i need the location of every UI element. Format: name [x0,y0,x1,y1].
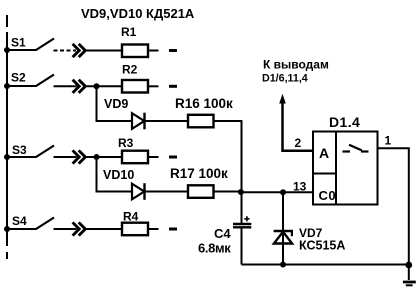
capacitor C4 6.8мк [198,192,251,264]
wire pin 2 [283,101,314,151]
svg-text:13: 13 [293,180,307,194]
connector plug-socket row S1 [73,44,86,57]
svg-text:К выводам: К выводам [263,58,329,72]
wire R16 out to drop [214,121,242,192]
svg-text:R4: R4 [123,210,139,224]
connector plug-socket row S3 [73,150,86,163]
switch S4 [7,214,54,229]
wire connector to R1 [86,50,122,52]
wire R4 out [148,228,159,230]
svg-text:S1: S1 [11,36,26,50]
wire R1 out [148,50,159,52]
IC D1.4 body [313,114,378,205]
wire pin 1 [378,148,409,264]
svg-text:КС515А: КС515А [299,239,345,253]
connector plug-socket row S2 [73,80,86,93]
node VD9 tap junction [94,83,100,89]
node bottom right junction [405,262,412,269]
svg-text:R3: R3 [118,136,134,150]
wire continuation dash R2 [169,85,177,88]
resistor R2 [122,63,148,93]
wire continuation dash R4 [169,228,177,231]
connector plug-socket row S4 [73,222,86,235]
node VD10 tap junction [94,154,100,160]
node S2 bus junction [4,83,10,89]
wire VD10 drop [97,157,133,192]
svg-text:D1.4: D1.4 [329,114,360,130]
wire VD10 to R17 [145,191,189,193]
wire connector to R2 [86,85,122,87]
node R16/R17/C4 junction [238,189,244,195]
svg-text:C4: C4 [214,226,231,241]
svg-text:A: A [319,145,329,161]
resistor R17 100к [170,166,228,198]
wire R2 out [148,85,159,87]
wire bottom rail [242,264,409,266]
resistor R4 [122,210,148,236]
svg-text:VD9: VD9 [104,97,128,111]
svg-text:1: 1 [385,134,392,148]
svg-text:R2: R2 [122,63,138,77]
diode VD9 [104,97,145,129]
node S3 bus junction [4,154,10,160]
wire continuation dash R1 [169,49,177,52]
diode VD10 [103,168,145,200]
resistor R16 100к [175,96,233,127]
wire connector to R3 [86,156,122,158]
svg-text:S4: S4 [12,214,27,228]
switch S1 [7,36,54,51]
wire left bus (dashed continuation bottom) [6,252,8,259]
node S4 bus junction [4,226,10,232]
node VD7 tap [280,189,286,195]
ground symbol [403,265,416,285]
resistor R1 [121,25,148,57]
switch S2 [7,71,54,87]
svg-text:VD9,VD10 КД521А: VD9,VD10 КД521А [81,6,195,21]
analog switch symbol inside D1.4 [343,145,369,152]
node S1 bus junction [4,47,10,53]
svg-text:R17 100к: R17 100к [170,166,228,181]
svg-text:D1/6,11,4: D1/6,11,4 [262,73,308,85]
arrow to D1/6,11,4 [279,94,286,104]
svg-text:S3: S3 [12,143,27,157]
wire left bus main [6,32,8,246]
wire VD9 drop [97,86,133,121]
wire R17 out [214,191,241,193]
wire left bus (dashed continuation top) [6,15,8,27]
resistor R3 [118,136,148,163]
wire blade to connector S3 [54,156,77,158]
wire blade to connector S2 [54,85,77,87]
svg-text:2: 2 [295,136,302,150]
svg-text:6.8мк: 6.8мк [198,241,231,256]
wire connector to R4 [86,228,122,230]
svg-text:C0: C0 [319,188,337,203]
wire node to pin 13 [241,191,313,193]
wire continuation dash R3 [169,156,177,159]
wire dashed shaft S1 [54,50,77,52]
svg-text:R1: R1 [121,25,137,39]
wire VD9 to R16 [145,120,189,122]
svg-text:VD10: VD10 [103,168,134,182]
switch S3 [7,143,54,157]
svg-text:R16 100к: R16 100к [175,96,233,111]
wire R3 out [148,156,159,158]
zener diode VD7 КС515А [274,192,346,264]
node VD7 bottom junction [280,262,286,268]
wire blade to connector S4 [54,228,77,230]
svg-text:S2: S2 [11,71,26,85]
